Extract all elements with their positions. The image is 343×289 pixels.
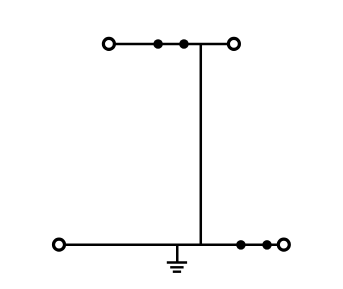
terminal T1 (top-left open circle)	[103, 38, 114, 49]
wire (vertical link between rails)	[200, 44, 203, 245]
ground bar 2 (middle)	[170, 266, 183, 268]
ground bar 3 (narrowest)	[173, 271, 181, 273]
wire (bottom rail horizontal)	[59, 244, 284, 247]
wire (ground stub vertical)	[176, 245, 179, 263]
terminal T2 (top-right open circle)	[228, 38, 239, 49]
junction dot (bottom rail, left clamping point)	[236, 240, 246, 250]
junction dot (top rail, left clamping point)	[153, 39, 163, 49]
junction dot (top rail, right clamping point)	[179, 39, 189, 49]
terminal T4 (bottom-right open circle)	[278, 239, 289, 250]
wire (top rail horizontal)	[109, 43, 234, 46]
terminal T3 (bottom-left open circle)	[54, 239, 65, 250]
ground bar 1 (widest)	[167, 261, 187, 263]
ground (earth symbol below bottom rail)	[167, 245, 187, 272]
junction dot (bottom rail, right clamping point)	[262, 240, 272, 250]
